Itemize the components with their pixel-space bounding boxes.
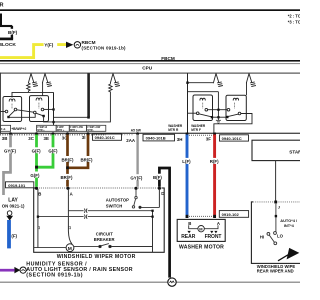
label B(F) white bg — [152, 174, 164, 180]
svg-text:+B/WiP+2: +B/WiP+2 — [11, 127, 26, 131]
svg-text:12: 12 — [37, 226, 41, 230]
svg-text:ON 0921-1): ON 0921-1) — [2, 204, 25, 209]
wire K2 to node — [44, 108, 54, 110]
node dot green — [35, 166, 38, 169]
connector dotted strip — [187, 134, 216, 136]
svg-text:B(F): B(F) — [8, 30, 18, 35]
wire bottom bus left — [9, 114, 36, 118]
node dot — [87, 116, 90, 119]
wire K3 common to pin 3H — [188, 112, 197, 114]
label (F) — [11, 232, 19, 238]
wire BR(F) brown 1 — [66, 135, 69, 187]
label G(F) 2 — [48, 147, 59, 153]
node dot — [275, 215, 277, 217]
svg-text:(F): (F) — [11, 234, 17, 239]
svg-text:D: D — [161, 191, 164, 196]
pin autostop — [134, 187, 137, 190]
humidity sensor arrow — [14, 267, 20, 274]
label BR(F) merged — [60, 174, 73, 180]
ground G1 — [28, 74, 38, 87]
svg-text:BR(F): BR(F) — [62, 157, 74, 162]
pin 3B — [9, 132, 12, 135]
svg-text:3H: 3H — [177, 137, 183, 142]
motor box top dotted connector — [36, 187, 163, 189]
connector box 0940-101B — [143, 134, 175, 141]
node dot — [217, 109, 219, 111]
svg-text:HI: HI — [260, 235, 264, 240]
node dot brown — [66, 166, 69, 169]
pin J — [274, 201, 277, 204]
wire coil feed bus left — [12, 92, 54, 97]
winding line LO — [38, 215, 153, 219]
svg-text:A: A — [217, 221, 220, 226]
relay K1 contact — [5, 108, 17, 116]
wire GY(F) gray 2 — [136, 135, 138, 189]
svg-text:LAY: LAY — [8, 198, 18, 204]
motor M — [66, 244, 74, 252]
wiper switch box — [251, 202, 303, 264]
svg-text:AUTOSTOP: AUTOSTOP — [106, 197, 129, 202]
svg-text:MTR +: MTR + — [57, 129, 65, 132]
node dot — [217, 116, 219, 118]
relay K3 coil — [200, 98, 205, 100]
node dot — [52, 108, 54, 110]
circuit breaker — [74, 244, 153, 248]
pin B — [35, 187, 38, 190]
CPU box left edge — [0, 73, 2, 134]
spray arrows — [187, 231, 190, 234]
ground G2 — [42, 74, 52, 87]
connector arrow to RBCM — [66, 42, 73, 48]
svg-text:LO: LO — [277, 233, 284, 238]
autostop switch — [132, 189, 141, 208]
svg-text:REAR: REAR — [181, 234, 196, 240]
svg-text:3F: 3F — [206, 137, 211, 142]
pin 3I — [87, 132, 90, 135]
svg-text:R: R — [0, 3, 4, 9]
right cluster: wire from top edge to pin 3H — [187, 74, 189, 133]
relay K3 box (WASHER MTR R) — [193, 95, 213, 121]
svg-text:Y(F): Y(F) — [44, 43, 53, 48]
FBCM box edge — [0, 60, 300, 62]
wire to switch box — [275, 161, 277, 201]
node dot — [151, 216, 153, 218]
svg-text:3B: 3B — [2, 136, 8, 141]
wire G(F) green 2 — [35, 135, 53, 168]
motor internal wire B — [37, 189, 39, 248]
connector arrow down — [7, 211, 12, 216]
relay K3 contact — [196, 108, 211, 116]
svg-text:M: M — [68, 246, 72, 252]
node dot — [52, 121, 54, 123]
svg-text:CIRCUIT: CIRCUIT — [96, 231, 113, 236]
svg-text:0940-101B: 0940-101B — [146, 136, 166, 141]
rotary arrow — [278, 255, 288, 261]
label G(F) merged — [30, 172, 41, 178]
svg-text:0940-101C: 0940-101C — [95, 135, 115, 140]
node dot — [151, 210, 153, 212]
pin 3G — [66, 132, 69, 135]
motor internal wire A — [67, 189, 69, 231]
label R(F) — [209, 158, 220, 164]
label GY(F) — [4, 147, 17, 153]
wire GY(F) gray — [4, 135, 11, 196]
pin B washer — [186, 215, 189, 218]
svg-text:(SECTION 0919-1b): (SECTION 0919-1b) — [26, 272, 83, 278]
motor left stub — [34, 247, 66, 249]
svg-text:BR(F): BR(F) — [61, 175, 73, 180]
FBCM inner edge line — [0, 62, 300, 65]
svg-text:A5 SW: A5 SW — [131, 128, 141, 132]
svg-text:MTR -: MTR - — [87, 129, 94, 132]
wire thick vertical from FBCM — [87, 74, 90, 118]
CPU bottom edge hatching — [0, 134, 106, 136]
connector box 0919-101 — [6, 182, 34, 188]
wire L(F) blue — [186, 135, 189, 218]
pin 3H — [186, 133, 189, 136]
svg-text:MTR +: MTR + — [70, 129, 78, 132]
svg-text:MTR +: MTR + — [37, 129, 45, 132]
svg-text:MTR F: MTR F — [191, 128, 201, 132]
node dot — [186, 82, 188, 84]
wire to ground G4 — [188, 82, 214, 84]
mini ground — [216, 117, 221, 123]
svg-text:WASHER MOTOR: WASHER MOTOR — [179, 244, 224, 250]
svg-text:12: 12 — [68, 226, 72, 230]
svg-text:J: J — [278, 205, 280, 210]
ground G4 — [213, 74, 223, 87]
wire R(F) red — [213, 135, 216, 218]
ground G5 wire — [246, 83, 248, 96]
winding line HI — [68, 209, 152, 213]
svg-text:BLOCK: BLOCK — [0, 42, 16, 48]
internal connector box row — [0, 125, 106, 131]
resistor R2 — [109, 83, 112, 92]
svg-text:3I: 3I — [82, 135, 86, 140]
pin 2AA — [136, 132, 139, 135]
svg-text:0919-101: 0919-101 — [8, 183, 26, 188]
pin A washer — [213, 215, 216, 218]
relay K4 coil — [233, 98, 238, 100]
wire lower link K3-K4 — [213, 116, 226, 118]
svg-text:L(F): L(F) — [182, 159, 191, 164]
wire stub left edge — [0, 111, 5, 113]
wire D internal — [158, 189, 160, 207]
wire inter-box vertical — [217, 92, 219, 118]
svg-text:0919-102: 0919-102 — [222, 212, 240, 217]
top border line — [0, 9, 300, 11]
svg-text:0940-101C: 0940-101C — [222, 136, 242, 141]
relay K1 box — [3, 97, 22, 122]
label GY(F) 2 — [130, 174, 144, 180]
pin 3F — [213, 133, 216, 136]
svg-text:B(F): B(F) — [153, 175, 162, 180]
fuse B(F) fuse block symbol — [0, 14, 13, 40]
svg-text:2AA: 2AA — [126, 138, 136, 143]
CPU box top edge — [0, 73, 300, 74]
wire G2 to K2 coil — [42, 83, 44, 96]
svg-text:START S: START S — [289, 150, 300, 155]
wire L(F) blue 2 — [7, 220, 11, 248]
label L(F) — [182, 158, 193, 164]
relay K2 contact — [34, 108, 44, 116]
svg-text:B: B — [38, 192, 41, 197]
svg-text:(SECTION 0919-1b): (SECTION 0919-1b) — [82, 46, 127, 51]
ground bus line — [0, 281, 300, 283]
svg-text:BR(F): BR(F) — [81, 157, 93, 162]
svg-text:WINDSHIELD WIPER MOTOR: WINDSHIELD WIPER MOTOR — [57, 254, 136, 260]
svg-text:*3 : TO WASHER: *3 : TO WASHER — [288, 20, 300, 25]
relay K1 coil — [9, 99, 15, 102]
wire from J — [275, 204, 277, 232]
resistor R1 — [27, 83, 30, 92]
connector box 0940-101C right — [220, 135, 249, 141]
svg-text:CPU: CPU — [142, 65, 153, 70]
relay K4 contact — [227, 108, 241, 116]
node dot B winding — [37, 216, 39, 218]
switch contacts — [267, 232, 277, 245]
relay K2 coil — [36, 98, 42, 101]
label B(F) — [7, 29, 18, 35]
svg-text:GY(F): GY(F) — [130, 176, 142, 181]
svg-text:3E: 3E — [44, 136, 49, 141]
label Y(F) — [44, 41, 58, 47]
pin 3C — [35, 132, 38, 135]
svg-text:GY(F): GY(F) — [4, 149, 16, 154]
wire G(F) green 1 — [35, 135, 38, 189]
svg-text:MTR R: MTR R — [168, 128, 179, 132]
wire coil bus right — [188, 91, 219, 93]
label G(F) 1 — [31, 147, 42, 153]
washer motor wires — [189, 225, 198, 228]
svg-text:R(F): R(F) — [210, 159, 219, 164]
wire bus A — [54, 116, 89, 118]
svg-text:FRONT: FRONT — [205, 234, 222, 240]
svg-text:G(F): G(F) — [30, 173, 40, 178]
ground G3 — [110, 74, 120, 87]
svg-text:3C: 3C — [28, 136, 34, 141]
label BR(F) 1 — [61, 156, 74, 162]
pin D — [158, 187, 161, 190]
label BR(F) 2 — [80, 156, 93, 162]
svg-text:G(F): G(F) — [32, 149, 42, 154]
wire bus B — [44, 92, 111, 122]
pin 3E — [52, 132, 55, 135]
relay K4 box (WASHER MTR F) — [226, 95, 246, 120]
relay K2 box — [30, 96, 49, 122]
start stop unit box — [252, 140, 304, 160]
wire vertical x53.5 — [53, 92, 55, 125]
ground G5 — [246, 74, 256, 87]
svg-text:F+b: F+b — [1, 128, 6, 131]
washer motor connector dotted — [187, 215, 216, 217]
pin A — [66, 187, 69, 190]
svg-text:INT*4: INT*4 — [284, 223, 295, 228]
svg-text:RBCM: RBCM — [82, 40, 96, 45]
windshield wiper motor box — [34, 188, 165, 252]
svg-text:BREAKER: BREAKER — [94, 237, 115, 242]
wire K1-K2 — [17, 110, 34, 112]
ground point circle — [168, 278, 176, 286]
wire upper link K3-K4 — [208, 109, 228, 111]
washer motor M — [198, 226, 204, 232]
svg-text:SWITCH: SWITCH — [106, 203, 123, 208]
connector box 0919-102 — [219, 211, 248, 218]
wire BR(F) brown 2 — [66, 135, 88, 168]
connector box 0940-101C — [93, 134, 122, 140]
wire K4 common to pin 3F — [214, 114, 252, 133]
wire B(F) black — [159, 168, 169, 278]
svg-text:REAR WIPER AND: REAR WIPER AND — [257, 268, 294, 273]
svg-text:A: A — [70, 192, 73, 197]
switch box top dotted — [253, 201, 300, 203]
CPU box bottom edge — [0, 133, 300, 134]
wire autostop to D — [140, 206, 159, 208]
common vertical — [152, 211, 154, 253]
wire V purple — [0, 269, 15, 272]
svg-text:G(F): G(F) — [48, 149, 58, 154]
svg-text:FBCM: FBCM — [161, 56, 175, 61]
svg-text:*2 : TO WASHER: *2 : TO WASHER — [288, 14, 300, 19]
washer motor box — [177, 219, 225, 241]
wire Y(F) yellow — [0, 45, 67, 58]
